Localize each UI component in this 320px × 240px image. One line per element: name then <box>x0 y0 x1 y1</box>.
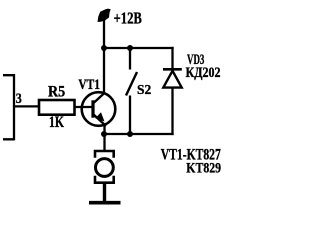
junction node (emitter / rail) <box>101 131 107 137</box>
bottom rail wire <box>104 133 174 135</box>
svg-text:КД202: КД202 <box>186 65 221 81</box>
switch S2 <box>126 48 137 134</box>
svg-text:S2: S2 <box>137 83 151 98</box>
junction node (S2 / bottom rail) <box>127 131 133 137</box>
diode VD3 branch wire (top) <box>171 47 173 69</box>
transistor VT1 <box>82 92 116 126</box>
svg-text:R5: R5 <box>48 83 65 100</box>
wire (pin 3 to R5) <box>14 105 39 107</box>
power arrow symbol +12V <box>98 9 111 22</box>
wire (emitter down) <box>103 126 105 135</box>
wire (rail down to load) <box>103 134 105 151</box>
svg-text:+12В: +12В <box>114 9 142 28</box>
ground <box>89 201 121 205</box>
svg-text:KT829: KT829 <box>186 160 221 176</box>
junction node (S2 / rail) <box>127 45 133 51</box>
wire (VT1 collector up to rail) <box>103 48 105 93</box>
connector bracket (input pin 3) <box>3 74 14 140</box>
wire (R5 to VT1 base) <box>75 106 93 108</box>
svg-text:3: 3 <box>16 91 22 107</box>
wire (+12V lead) <box>103 20 105 48</box>
diode VD3 branch wire (bottom) <box>171 88 173 136</box>
junction node (collector / rail) <box>101 45 107 51</box>
load element (electroacoustic device) <box>95 151 114 183</box>
resistor R5 <box>39 100 75 115</box>
diode VD3 cathode bar <box>163 68 182 71</box>
wire (load to ground) <box>103 183 106 201</box>
svg-text:VT1: VT1 <box>78 77 100 93</box>
svg-text:1K: 1K <box>49 114 64 131</box>
top rail wire <box>104 47 174 49</box>
diode VD3 triangle <box>163 71 181 88</box>
